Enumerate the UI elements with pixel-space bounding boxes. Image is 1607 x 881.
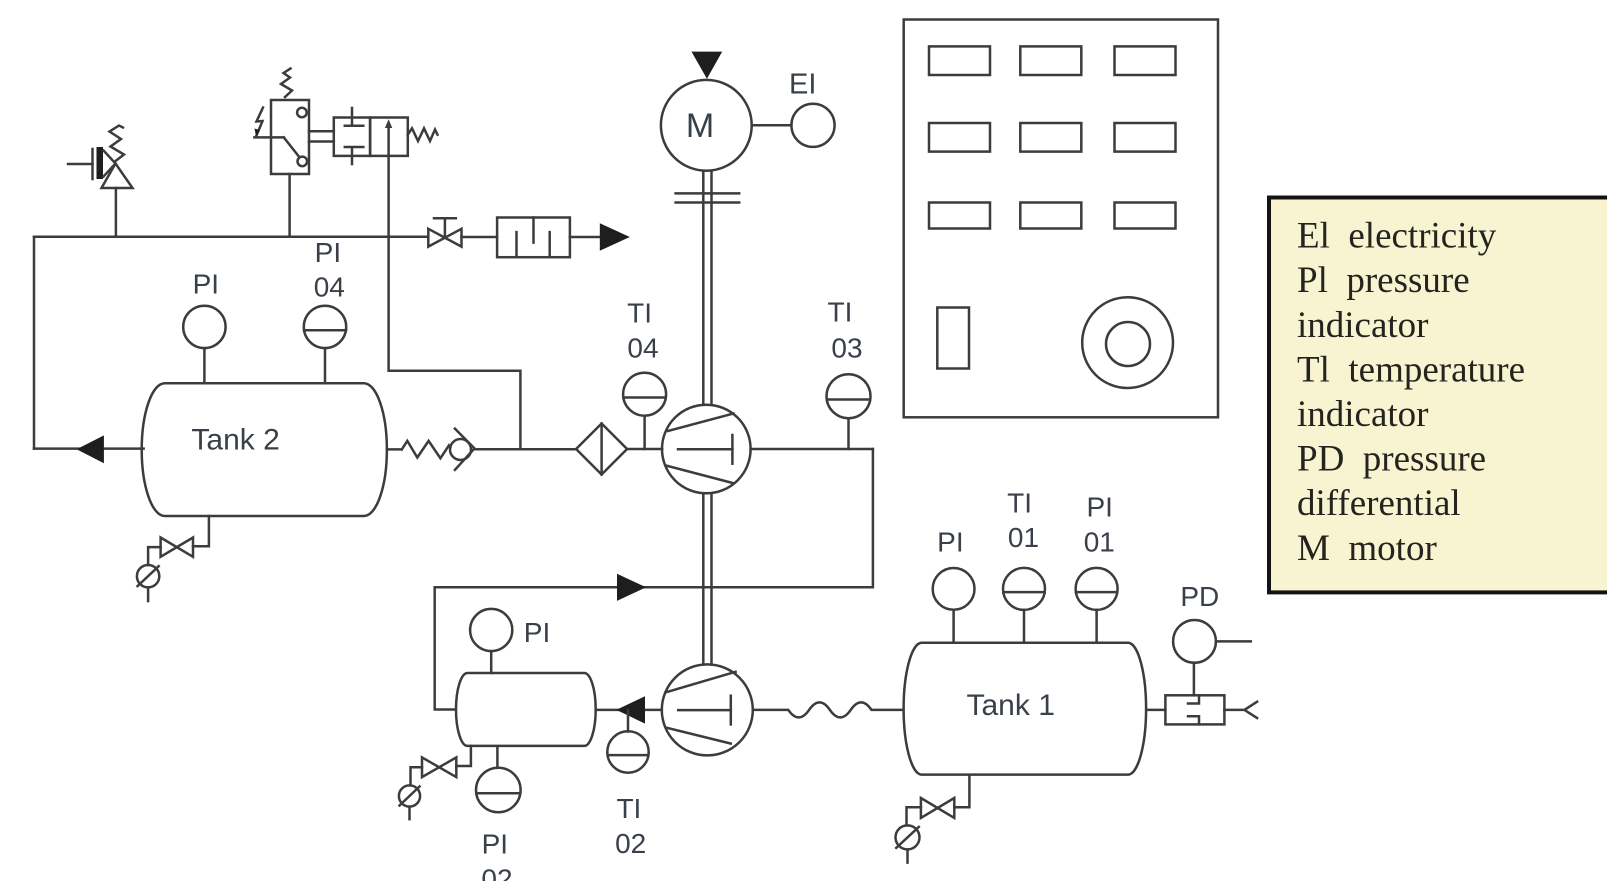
tank T1 body (904, 643, 1146, 775)
pressure switch PS contacts (254, 108, 307, 167)
svg-text:PI: PI (193, 269, 219, 300)
flow arrow (recirculation, right) (617, 574, 646, 601)
svg-text:01: 01 (1008, 522, 1039, 553)
pressure switch top spring (281, 69, 292, 98)
check valve CV seat (455, 429, 475, 470)
wire pilot valve down leg (389, 156, 521, 449)
hand valve V2 body (428, 229, 461, 247)
motor M label (686, 107, 714, 145)
svg-text:PI: PI (315, 237, 341, 268)
panel switch (937, 308, 969, 369)
separator drain elbow (411, 767, 423, 785)
check valve CV ball (450, 439, 471, 460)
wire valve to muffler (462, 236, 498, 239)
outlet silencer body (1147, 695, 1225, 724)
svg-text:Tank 2: Tank 2 (191, 424, 279, 457)
wire left return riser (33, 237, 36, 449)
tank T2 body (142, 383, 387, 516)
flow arrow (suction, left) (616, 696, 645, 723)
svg-text:Pl pressure: Pl pressure (1297, 260, 1470, 301)
filter diamond (576, 424, 627, 475)
wire filter to compressor K1 (627, 448, 662, 451)
relief valve PSV spring (110, 126, 125, 162)
svg-text:El electricity: El electricity (1297, 216, 1497, 257)
flow arrow (left, return line) (77, 435, 104, 463)
wire pressure switch stem (288, 174, 291, 237)
svg-text:PI: PI (937, 527, 963, 558)
outlet vent branch (1224, 702, 1257, 718)
gauge PI 04 label (314, 237, 345, 303)
tank T1 drain valve (921, 798, 954, 818)
svg-text:PD: PD (1180, 581, 1219, 612)
compressor K2 body (662, 664, 753, 755)
exhaust flow arrow (600, 223, 630, 251)
gauge TI 02 (607, 710, 648, 773)
relief valve PSV seat plate (93, 147, 104, 179)
tank T2 label (191, 424, 279, 457)
gauge TI 03 label (828, 297, 863, 364)
tank T1 drain elbow (907, 807, 921, 825)
tank T2 drain valve (161, 538, 193, 557)
gauge TI 04 label (627, 298, 658, 364)
control panel body (904, 20, 1218, 418)
svg-text:01: 01 (1084, 527, 1115, 558)
shaft coupling (676, 193, 740, 202)
pilot valve V1 position box 1 (334, 108, 370, 164)
legend text (1297, 216, 1525, 569)
wire compressor K1 outlet (751, 448, 873, 451)
tank T2 drain outlet symbol (137, 565, 159, 601)
gauge PI 02 label (481, 828, 512, 881)
pilot valve V1 position box 2 (370, 118, 408, 156)
gauge PD label (1180, 581, 1219, 612)
gauge PI 04 (304, 306, 346, 384)
tank T1 drain outlet symbol (896, 825, 920, 862)
pressure switch electric bolt (255, 108, 264, 137)
tank T2 drain pipe (193, 516, 209, 546)
shaft between compressors (703, 493, 711, 664)
gauge PI 01 (1076, 568, 1118, 643)
hand valve V2 stem handle (434, 218, 456, 237)
separator drain pipe (456, 746, 471, 766)
svg-text:PI: PI (1086, 491, 1112, 522)
svg-text:04: 04 (627, 332, 658, 363)
svg-text:differential: differential (1297, 483, 1461, 524)
indicator EI label (789, 69, 816, 101)
motor M body (661, 80, 752, 171)
wire return line to Tank 2 (34, 447, 144, 450)
panel knob (1082, 297, 1173, 388)
svg-text:PD pressure: PD pressure (1297, 439, 1486, 480)
gauge TI 01 (1003, 568, 1045, 643)
svg-text:TI: TI (627, 298, 652, 329)
compressor K1 body (662, 405, 751, 494)
motor supply arrow (692, 52, 723, 79)
separator drain valve (422, 757, 456, 777)
pressure switch PS body (271, 100, 309, 174)
tank T1 label (967, 689, 1055, 722)
panel button row 2 (929, 123, 1176, 152)
gauge TI 02 label (615, 793, 646, 859)
panel button row 3 (929, 203, 1176, 229)
gauge PI 02 (476, 747, 521, 813)
tank T2 drain elbow (148, 547, 161, 565)
flexible hose to Tank 1 (753, 702, 904, 717)
tank T1 drain pipe (954, 776, 969, 808)
separator vessel body (456, 673, 596, 746)
gauge PI (Tank 1) (933, 568, 975, 643)
panel button row 1 (929, 46, 1176, 75)
gauge PI (Tank 1) label (937, 527, 963, 558)
wire relief valve stem (115, 188, 118, 237)
svg-text:M motor: M motor (1297, 528, 1437, 569)
svg-text:PI: PI (524, 617, 550, 648)
gauge PI (Tank 2) (183, 306, 225, 384)
wire muffler to exhaust arrow (570, 236, 600, 239)
wire check valve to filter (475, 448, 577, 451)
wire recirculation loop (435, 449, 873, 710)
svg-text:indicator: indicator (1297, 394, 1429, 435)
motor shaft upper (703, 171, 711, 405)
svg-text:TI: TI (616, 793, 641, 824)
svg-text:M: M (686, 107, 714, 145)
svg-text:TI: TI (1007, 488, 1032, 519)
gauge TI 03 (827, 374, 871, 449)
svg-text:TI: TI (828, 297, 853, 328)
relief valve PSV inlet line (68, 163, 93, 166)
svg-text:02: 02 (615, 828, 646, 859)
gauge TI 04 (623, 373, 666, 449)
relief valve PSV poppet fan (104, 151, 116, 177)
gauge PI (separator) (470, 609, 512, 673)
svg-text:04: 04 (314, 272, 345, 303)
relief valve PSV body triangle (102, 164, 133, 189)
svg-text:PI: PI (482, 828, 508, 859)
svg-text:Tank 1: Tank 1 (967, 689, 1055, 722)
gauge PI (separator) label (524, 617, 550, 648)
svg-text:03: 03 (831, 332, 862, 363)
wire main top header line (34, 236, 428, 239)
gauge TI 01 label (1007, 488, 1039, 554)
svg-text:indicator: indicator (1297, 305, 1429, 346)
wire separator to compressor K2 (596, 709, 662, 712)
pilot valve V1 return spring (408, 128, 438, 141)
check valve CV spring (387, 441, 450, 458)
svg-text:EI: EI (789, 69, 816, 101)
svg-text:02: 02 (481, 864, 512, 881)
gauge PD (1173, 620, 1251, 695)
separator drain outlet symbol (399, 785, 420, 819)
gauge PI 01 label (1084, 491, 1115, 557)
muffler F1 body (497, 218, 570, 258)
svg-text:Tl temperature: Tl temperature (1297, 349, 1525, 390)
mechanical link switch-to-valve (309, 131, 334, 141)
legend box (1269, 198, 1607, 593)
gauge PI (Tank 2) label (193, 269, 219, 300)
indicator EI circle (752, 104, 835, 147)
